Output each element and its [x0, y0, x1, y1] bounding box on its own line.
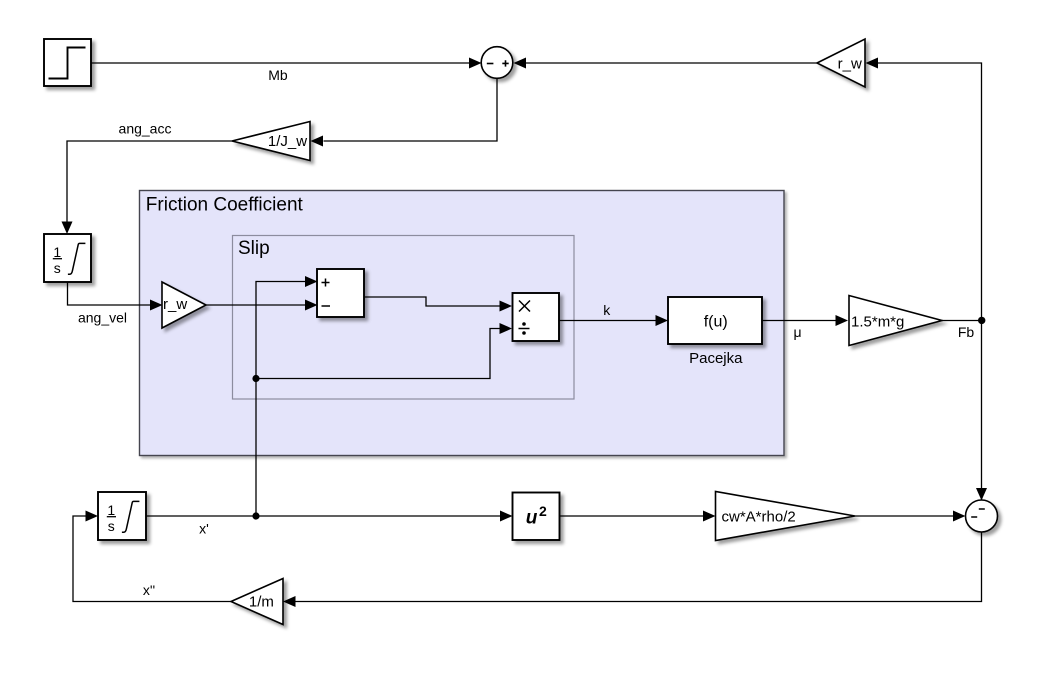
wire Gain 1/m to Integrator2: [73, 511, 231, 602]
gain 1/J_w: [232, 122, 310, 161]
svg-text:f(u): f(u): [704, 313, 728, 330]
svg-text:x'': x'': [143, 582, 155, 598]
sum block Sum3 (bottom right): [966, 500, 998, 532]
gain cw*A*rho/2: [716, 492, 856, 541]
integrator block 1: [44, 234, 91, 282]
sum block Sum2 (rectangular): [317, 269, 364, 317]
svg-text:1: 1: [107, 502, 115, 518]
svg-text:Pacejka: Pacejka: [689, 350, 743, 367]
wire feedback Fb vertical to Gain r_w (top): [866, 58, 988, 501]
product block (times and divide): [513, 293, 560, 341]
wire Gain r_w (top) to Sum1: [514, 58, 818, 69]
svg-text:1/m: 1/m: [249, 594, 274, 611]
svg-text:r_w: r_w: [163, 296, 187, 313]
svg-text:1.5*m*g: 1.5*m*g: [851, 314, 904, 331]
svg-text:Fb: Fb: [958, 324, 975, 340]
area Friction Coefficient: [140, 191, 785, 456]
integrator block 2: [98, 492, 146, 540]
wire Product to Fcn f(u), labelled k: [559, 315, 668, 326]
node junction on x-prime line: [252, 512, 259, 519]
gain r_w (in Friction area): [162, 282, 206, 328]
svg-text:r_w: r_w: [838, 56, 862, 73]
node junction in Slip: [252, 375, 259, 382]
wire x-prime branch up to Sum2 plus input: [256, 276, 318, 516]
svg-text:k: k: [603, 302, 611, 318]
wire u2 to Gain cw*A*rho/2: [560, 511, 716, 522]
svg-text:2: 2: [539, 503, 547, 519]
svg-text:Slip: Slip: [238, 238, 270, 259]
wire Sum2 to Product times input: [364, 297, 512, 312]
svg-text:1: 1: [53, 244, 61, 260]
svg-text:Mb: Mb: [268, 67, 288, 83]
step source block: [44, 39, 91, 86]
sum block Sum1: [481, 47, 513, 79]
gain 1.5*m*g: [849, 296, 942, 346]
node Fb junction: [978, 317, 985, 324]
wire Sum3 to Gain 1/m: [283, 533, 982, 608]
wire Gain 1.5*m*g to Fb node: [942, 320, 982, 322]
svg-text:μ: μ: [793, 324, 801, 340]
wire Gain cw*A*rho/2 to Sum3: [855, 511, 965, 522]
svg-text:Friction Coefficient: Friction Coefficient: [146, 195, 304, 216]
wire Integrator1 to Gain r_w: [68, 282, 163, 311]
svg-text:s: s: [108, 518, 115, 534]
wire Integrator2 to u2 block, labelled x-prime: [146, 511, 513, 522]
svg-text:x': x': [199, 521, 209, 537]
wire branch to Product divide input: [256, 323, 512, 379]
wire Sum1 to Gain 1/J_w: [311, 79, 498, 147]
wire Gain r_w to Sum2 minus input: [206, 300, 318, 311]
gain r_w (top right): [817, 39, 865, 87]
svg-text:cw*A*rho/2: cw*A*rho/2: [722, 509, 796, 526]
wire Fcn to Gain 1.5*m*g, labelled mu: [762, 315, 848, 326]
svg-text:u: u: [526, 508, 538, 529]
svg-text:s: s: [54, 260, 61, 276]
wire Gain 1/J_w to Integrator1: [62, 141, 233, 234]
area Slip: [233, 236, 575, 400]
svg-text:1/J_w: 1/J_w: [268, 133, 307, 150]
svg-text:ang_acc: ang_acc: [119, 121, 172, 137]
svg-text:ang_vel: ang_vel: [78, 310, 127, 326]
gain 1/m: [231, 579, 283, 625]
Fcn block f(u) Pacejka: [668, 297, 762, 344]
math block u squared: [513, 493, 560, 541]
wire Step to Sum1: [91, 58, 482, 69]
